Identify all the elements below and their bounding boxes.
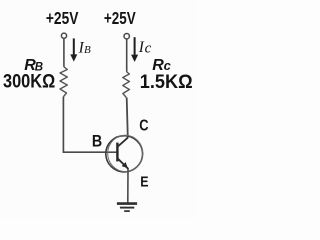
- wire RC to collector: [127, 98, 128, 138]
- current arrow IB: [70, 38, 77, 61]
- resistor RB: [60, 67, 67, 97]
- wire RB to base (L-shaped): [63, 97, 106, 152]
- wire emitter to ground: [127, 169, 129, 203]
- svg-text:+25V: +25V: [46, 8, 79, 28]
- transistor Q1 base bar: [116, 143, 118, 162]
- transistor Q1 circle: [106, 135, 143, 172]
- svg-text:C: C: [139, 117, 148, 134]
- svg-text:300KΩ: 300KΩ: [3, 72, 55, 93]
- svg-text:B: B: [92, 132, 102, 150]
- wire base inside circle: [107, 151, 118, 153]
- wire left terminal to RB: [63, 38, 65, 66]
- svg-text:Ic: Ic: [138, 39, 152, 57]
- svg-text:E: E: [140, 174, 149, 190]
- terminal left +25V: [61, 33, 66, 38]
- svg-text:1.5KΩ: 1.5KΩ: [140, 72, 193, 93]
- wire right terminal to RC: [126, 39, 128, 72]
- svg-text:+25V: +25V: [104, 8, 136, 28]
- transistor Q1 emitter stroke with arrow: [118, 158, 129, 169]
- resistor RC: [123, 72, 130, 98]
- terminal right +25V: [124, 34, 129, 39]
- current arrow IC: [131, 37, 138, 62]
- transistor Q1 collector stroke: [118, 138, 128, 147]
- ground: [117, 204, 137, 212]
